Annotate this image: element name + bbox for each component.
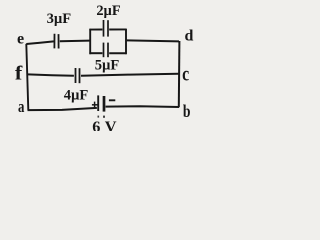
battery plus sign: [92, 102, 98, 108]
node c label: [182, 61, 189, 85]
label 4uF: [64, 87, 89, 103]
node d label: [185, 28, 194, 45]
battery negative plate: [103, 96, 106, 112]
parallel box bottom edge (with gap for C3): [89, 52, 126, 54]
svg-text:c: c: [182, 61, 189, 85]
svg-text:3µF: 3µF: [47, 11, 72, 27]
svg-text:a: a: [18, 97, 25, 116]
parallel box right edge: [125, 29, 127, 54]
node e label: [17, 31, 24, 48]
node f label: [15, 63, 23, 84]
wire box to node d: [127, 40, 179, 41]
left rail e to a: [26, 44, 28, 110]
wire f to C4: [28, 74, 74, 75]
battery minus sign: [109, 99, 115, 101]
wire C1 to box: [60, 40, 90, 43]
svg-text:e: e: [17, 31, 24, 48]
label 5uF for C3: [95, 58, 120, 74]
label 2uF for C2: [96, 3, 120, 19]
plate tip marks below battery: [98, 116, 104, 118]
svg-text:2µF: 2µF: [96, 3, 120, 19]
svg-text:d: d: [185, 28, 194, 45]
parallel box left edge: [89, 29, 91, 54]
svg-text:b: b: [183, 101, 191, 121]
capacitor C3 5uF plates (bottom branch): [104, 43, 109, 58]
capacitor C4 plates (middle branch): [76, 68, 80, 83]
node b label: [183, 101, 191, 121]
svg-text:4µF: 4µF: [64, 87, 89, 103]
capacitor C1 3uF plates: [54, 34, 58, 49]
node a label: [18, 97, 25, 116]
right rail d to b: [178, 41, 181, 107]
wire a to battery: [28, 108, 97, 110]
wire e to C1: [26, 41, 53, 44]
svg-text:5µF: 5µF: [95, 58, 120, 74]
parallel box top edge (with gap for C2): [89, 28, 126, 30]
paper background: [0, 0, 227, 131]
svg-text:f: f: [15, 63, 23, 84]
label 3uF for C1: [47, 11, 72, 27]
svg-text:6 V: 6 V: [92, 117, 117, 131]
capacitor C2 2uF plates (top branch): [104, 20, 109, 37]
wire C4 to node c: [81, 74, 179, 76]
wire battery to node b: [106, 105, 179, 108]
label 6 V for battery: [92, 117, 117, 136]
battery positive plate: [97, 95, 99, 111]
